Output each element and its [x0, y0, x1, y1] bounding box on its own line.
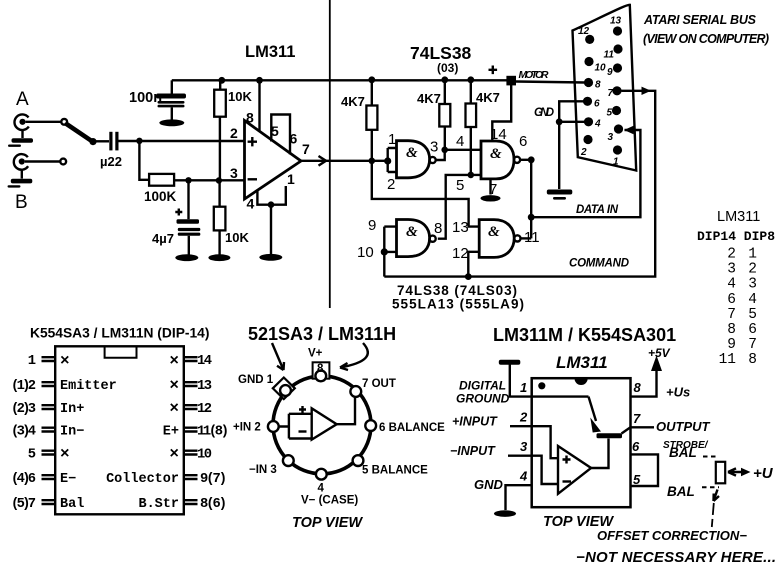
switch open contact B: [60, 159, 66, 165]
svg-text:TOP VIEW: TOP VIEW: [292, 515, 363, 531]
svg-text:A: A: [16, 89, 29, 110]
svg-text:×: ×: [169, 445, 179, 463]
svg-text:11: 11: [604, 50, 615, 61]
svg-text:4: 4: [594, 119, 601, 130]
svg-text:LM311: LM311: [556, 353, 608, 372]
svg-text:3: 3: [748, 277, 757, 293]
TO99 pin1 circle: [280, 385, 291, 396]
ground under 10K bottom: [208, 254, 230, 261]
capacitor 100n plates: [156, 94, 186, 108]
svg-text:9: 9: [607, 67, 613, 78]
svg-text:OFFSET CORRECTION−: OFFSET CORRECTION−: [597, 528, 747, 543]
svg-text:+Us: +Us: [666, 385, 690, 400]
TO99 pin6 circle: [365, 420, 376, 431]
gate G1 body: [397, 141, 430, 178]
resistor 10K top: [214, 90, 226, 117]
DIP14 pin stub R1: [184, 357, 198, 361]
svg-text:+U: +U: [753, 465, 774, 482]
svg-text:B: B: [15, 192, 28, 213]
rail node 4K7a: [368, 76, 375, 83]
svg-text:10: 10: [197, 448, 212, 463]
svg-text:COMMAND: COMMAND: [569, 258, 629, 270]
svg-text:521SA3 / LM311H: 521SA3 / LM311H: [248, 324, 396, 344]
svg-text:4: 4: [748, 292, 757, 308]
svg-text:8: 8: [748, 352, 757, 368]
transistor emitter arrowhead: [590, 418, 601, 433]
svg-text:10: 10: [357, 244, 374, 261]
resistor R 4K7b: [439, 104, 450, 127]
svg-text:2: 2: [519, 410, 528, 425]
DIP8 pin3 inner wire: [532, 456, 558, 484]
svg-text:1: 1: [287, 171, 295, 187]
TO99 pin2 circle: [268, 421, 279, 432]
TO99 arrow left: [272, 343, 284, 370]
wire pin3 node to 10K bottom: [218, 181, 220, 207]
svg-text:1: 1: [388, 131, 396, 148]
node divider branch: [216, 177, 222, 183]
DIP8 pin4 wire: [506, 485, 532, 510]
ground symbol connector: [547, 190, 573, 200]
resistor R 4K7a lead: [371, 80, 373, 106]
wire 10K top to pin3 node: [219, 117, 221, 181]
svg-text:(4)6: (4)6: [11, 471, 36, 487]
svg-text:1: 1: [28, 354, 36, 369]
svg-text:8: 8: [727, 322, 736, 338]
wire jack B to open contact: [25, 160, 60, 162]
svg-text:(5)7: (5)7: [11, 496, 36, 512]
svg-text:2: 2: [230, 125, 238, 141]
wire MOTOR to pin8: [516, 82, 585, 83]
svg-text:1: 1: [613, 157, 619, 168]
svg-text:V+: V+: [308, 348, 323, 360]
transistor base bar: [597, 433, 623, 438]
TO99 arrow right curved: [340, 343, 368, 370]
MOTOR node square: [506, 76, 516, 86]
svg-text:(VIEW ON COMPUTER): (VIEW ON COMPUTER): [643, 32, 769, 46]
svg-text:DIGITAL: DIGITAL: [459, 379, 506, 393]
DIP14 pin stub L2: [42, 382, 56, 386]
capacitor u22 plates: [109, 132, 118, 151]
svg-text:4: 4: [456, 133, 464, 150]
node 4K7a output: [369, 158, 376, 165]
resistor R 4K7a: [366, 106, 377, 130]
svg-text:5: 5: [607, 108, 613, 119]
resistor 4K7c lead: [470, 80, 472, 104]
svg-text:11: 11: [719, 352, 736, 368]
svg-text:DATA IN: DATA IN: [576, 204, 619, 216]
svg-text:ATARI SERIAL BUS: ATARI SERIAL BUS: [643, 13, 757, 27]
svg-text:5 BALANCE: 5 BALANCE: [362, 465, 428, 477]
ground under op-amp: [259, 254, 282, 261]
gate G3 bubble: [430, 236, 436, 242]
TO99 output wire: [337, 397, 355, 424]
gate G1 bubble: [430, 157, 436, 163]
rail node 10K: [218, 77, 225, 84]
svg-text:1: 1: [520, 380, 527, 395]
DIP8 pin1 inner wire: [532, 395, 589, 397]
node G1 out pullup: [441, 147, 448, 154]
arrow data in left: [624, 126, 634, 134]
svg-text:4K7: 4K7: [476, 90, 500, 105]
svg-text:7 OUT: 7 OUT: [362, 378, 396, 390]
svg-text:2: 2: [580, 147, 587, 158]
DIP14 pin stub R4: [184, 428, 198, 432]
resistor R 4K7c: [466, 104, 477, 128]
svg-text:6: 6: [748, 322, 757, 338]
connector pin 5: [612, 106, 621, 115]
switch lever: [67, 124, 93, 141]
DIP8 pin1 wire to rail: [510, 364, 532, 397]
DIP8 body: [532, 378, 631, 507]
svg-text:×: ×: [169, 377, 179, 395]
svg-text:4: 4: [318, 483, 325, 495]
svg-text:BAL: BAL: [669, 445, 697, 460]
gate G3 input tie: [384, 227, 396, 252]
svg-text:4: 4: [247, 196, 255, 212]
svg-text:2: 2: [748, 262, 757, 278]
switch pivot node: [89, 138, 96, 145]
gate G4 pin12 wire: [468, 252, 479, 277]
DIP8 ground blob: [494, 510, 516, 517]
svg-text:8: 8: [595, 80, 601, 91]
DIP8 notch: [575, 378, 588, 385]
TO99 pin5 circle: [353, 455, 364, 466]
transistor emitter wire: [589, 397, 597, 421]
wire G2 out to node: [520, 159, 531, 161]
svg-text:7: 7: [748, 337, 757, 353]
jack A: [14, 114, 28, 138]
TO99 pin8 circle: [315, 371, 326, 382]
gate G2 body: [481, 141, 514, 179]
svg-text:5: 5: [271, 123, 279, 139]
DIP8 dashes upper: [703, 456, 719, 458]
svg-text:12: 12: [452, 245, 469, 262]
svg-text:&: &: [406, 145, 418, 161]
DIP8 pin7 wire: [631, 426, 655, 428]
connector pin 12: [585, 35, 594, 44]
wire u22 to opamp pin2: [119, 140, 245, 142]
DIP8 dashes lower: [702, 486, 719, 488]
wire G3 out to G2 pin5: [438, 175, 481, 239]
wire gnd down: [558, 122, 560, 189]
svg-text:7: 7: [727, 307, 736, 323]
DIP14 pin stub R3: [184, 405, 198, 409]
svg-text:7: 7: [608, 88, 614, 99]
DIP8 pin2 wire: [510, 425, 532, 427]
svg-text:LM311: LM311: [717, 209, 760, 225]
svg-text:Emitter: Emitter: [60, 379, 117, 394]
svg-text:In+: In+: [60, 402, 84, 417]
TO99 pin8 square tab: [313, 362, 330, 378]
wire G4 out: [520, 237, 531, 239]
svg-text:555LA13 (555LA9): 555LA13 (555LA9): [392, 297, 524, 312]
node 4K7c pin5: [468, 172, 475, 179]
node pin 1-4 loop: [268, 201, 275, 208]
svg-text:9: 9: [727, 337, 736, 353]
svg-text:6: 6: [290, 131, 298, 147]
ground under 100n: [159, 119, 184, 126]
offset arrow up: [714, 490, 720, 502]
svg-text:11(8): 11(8): [197, 424, 229, 440]
DIP14 pin stub R7: [184, 500, 198, 504]
connector pin 4: [584, 117, 593, 126]
op-amp output wire: [301, 160, 388, 162]
svg-text:12: 12: [197, 402, 212, 417]
svg-text:74LS38: 74LS38: [410, 43, 472, 63]
svg-text:4K7: 4K7: [417, 91, 441, 106]
node gnd: [556, 118, 563, 125]
capacitor 4u7 plates: [177, 219, 201, 236]
DIP14 pin stub L1: [42, 357, 56, 361]
svg-text:7: 7: [302, 141, 310, 157]
gate G3 input node: [381, 248, 388, 255]
wire COMMAND from pin7: [384, 91, 655, 277]
connector pin 9: [613, 63, 622, 72]
resistor 4K7b bottom lead: [444, 127, 446, 150]
svg-text:×: ×: [169, 352, 179, 370]
svg-text:8: 8: [317, 363, 324, 375]
offset arrow dashed line: [712, 503, 714, 527]
DIP8 pin1 mark dot: [538, 382, 545, 389]
svg-text:7: 7: [633, 411, 641, 426]
svg-text:5: 5: [456, 177, 464, 194]
svg-text:TOP VIEW: TOP VIEW: [543, 514, 614, 530]
jack B: [14, 154, 28, 178]
svg-text:OUTPUT: OUTPUT: [656, 419, 711, 434]
DIP14 pin stub R5: [184, 451, 198, 455]
svg-text:(03): (03): [437, 61, 458, 75]
gate G1 input tie: [388, 148, 397, 172]
gate G4 body: [479, 220, 514, 258]
svg-text:MOTOR: MOTOR: [519, 69, 549, 81]
connector pin 8: [584, 78, 593, 87]
wire pivot to capacitor u22: [96, 140, 109, 142]
connector pin 7: [612, 86, 621, 95]
ground gate G2 pin7: [481, 195, 501, 201]
DIP8 opamp plus: [563, 456, 571, 464]
wire node down to data line: [530, 160, 532, 239]
gate G2 pin7 ground wire: [489, 179, 491, 195]
svg-text:4: 4: [519, 469, 528, 484]
svg-text:14: 14: [197, 354, 212, 369]
svg-text:LM311: LM311: [245, 43, 295, 61]
svg-text:3: 3: [430, 139, 438, 156]
svg-text:3: 3: [230, 165, 238, 181]
svg-text:LM311M / K554SA301: LM311M / K554SA301: [493, 325, 676, 345]
wire node to G4 pin13: [372, 161, 479, 227]
op-amp pin8 wire: [258, 80, 260, 131]
DIP14 pin stub L6: [42, 475, 56, 479]
potentiometer box: [716, 462, 725, 484]
pot wiper arrow left: [728, 468, 741, 475]
DIP8 +5V arrowhead: [651, 356, 662, 372]
gate G2 bubble: [514, 157, 520, 163]
svg-text:5: 5: [28, 448, 36, 463]
svg-text:13: 13: [197, 379, 212, 394]
rail node 4K7b: [441, 76, 448, 83]
node data in junction: [528, 214, 535, 221]
svg-text:2: 2: [727, 247, 736, 263]
resistor 4K7c bottom lead: [470, 127, 472, 175]
svg-text:3: 3: [608, 132, 614, 143]
svg-text:100K: 100K: [144, 189, 177, 204]
TO99 can circle: [273, 376, 371, 474]
plus5 rail: [172, 79, 507, 81]
TO99 pin7 circle: [350, 386, 361, 397]
resistor 4K7a bottom lead: [371, 130, 373, 161]
wire rail to 100n: [171, 80, 173, 93]
connector pin 3: [614, 124, 623, 133]
DIP8 pin8 wire: [631, 369, 657, 397]
svg-text:BAL: BAL: [667, 484, 695, 499]
svg-text:12: 12: [578, 26, 590, 37]
svg-text:(3)4: (3)4: [11, 424, 36, 440]
svg-text:3: 3: [520, 439, 528, 454]
capacitor 4u7 plus sign: [175, 209, 182, 216]
svg-text:6 BALANCE: 6 BALANCE: [379, 422, 445, 434]
wire 10K bottom to ground: [218, 230, 220, 254]
svg-text:&: &: [488, 224, 500, 240]
svg-text:4µ7: 4µ7: [152, 231, 174, 246]
DIP14 pin stub R2: [184, 382, 198, 386]
DIP14 pin stub L5: [42, 451, 56, 455]
svg-text:6: 6: [519, 133, 527, 150]
svg-text:K554SA3 / LM311N (DIP-14): K554SA3 / LM311N (DIP-14): [30, 326, 209, 341]
DIP8 opamp minus: [563, 480, 572, 482]
svg-text:9: 9: [368, 217, 376, 234]
pot arrow right filled: [741, 468, 751, 476]
connector pin 11: [613, 44, 622, 53]
svg-text:8: 8: [246, 110, 254, 126]
svg-text:10K: 10K: [225, 230, 249, 245]
DIP8 pin3 wire: [508, 455, 532, 457]
svg-text:&: &: [490, 146, 502, 162]
svg-text:10K: 10K: [228, 89, 252, 104]
svg-text:6: 6: [632, 439, 640, 454]
gate G1 input node: [384, 157, 391, 164]
resistor 10K bottom: [214, 207, 226, 231]
svg-text:×: ×: [60, 445, 70, 463]
svg-text:GND: GND: [534, 107, 554, 119]
DIP14 notch: [105, 346, 137, 358]
svg-text:4K7: 4K7: [341, 94, 365, 109]
DIP14 body: [55, 346, 184, 514]
op-amp U1 triangle: [245, 121, 302, 200]
DIP14 pin stub R6: [184, 475, 198, 479]
plus sign on rail: [489, 66, 498, 75]
svg-text:8: 8: [634, 380, 642, 395]
svg-text:3: 3: [727, 262, 736, 278]
connector pin 2: [583, 135, 592, 144]
node pin12 command: [465, 273, 472, 280]
wire gnd pin6: [559, 101, 586, 122]
svg-text:Collector: Collector: [106, 472, 179, 487]
svg-text:6: 6: [727, 292, 736, 308]
svg-text:−NOT NECESSARY HERE...: −NOT NECESSARY HERE...: [576, 549, 776, 566]
svg-text:8(6): 8(6): [200, 496, 227, 512]
wire G1 out to G2 pin4: [436, 150, 481, 160]
svg-text:2: 2: [387, 176, 395, 193]
TO99 opamp minus: [299, 430, 307, 432]
connector pin 10: [584, 57, 593, 66]
output arrow chevron: [319, 156, 327, 166]
resistor 4K7b lead: [444, 80, 446, 104]
svg-text:13: 13: [452, 219, 469, 236]
svg-text:E−: E−: [60, 472, 76, 487]
switch open contact A: [61, 119, 67, 125]
ground under 4u7: [175, 254, 198, 261]
node after u22: [136, 138, 142, 144]
resistor 10K top lead: [219, 80, 221, 89]
DIP8 opamp out to base: [591, 439, 608, 469]
gate G4 bubble: [514, 235, 520, 241]
gate G2 pin14 wire: [492, 80, 511, 141]
svg-text:8: 8: [434, 220, 442, 237]
transistor collector wire: [622, 427, 631, 433]
rail node pin8: [256, 77, 263, 84]
svg-text:9(7): 9(7): [200, 471, 227, 487]
svg-text:+IN 2: +IN 2: [233, 422, 261, 434]
DIP8 pin6 pin5 bracket: [631, 454, 659, 486]
svg-text:×: ×: [169, 400, 179, 418]
wire 100n to ground: [171, 107, 173, 119]
svg-text:13: 13: [610, 16, 622, 27]
svg-text:µ22: µ22: [100, 154, 122, 169]
svg-text:(1)2: (1)2: [11, 378, 36, 394]
op-amp minus sign: [248, 178, 257, 180]
svg-text:V− (CASE): V− (CASE): [301, 495, 358, 507]
svg-text:×: ×: [60, 352, 70, 370]
ground under jack A: [8, 138, 33, 147]
wire node down to 100K: [139, 141, 149, 180]
gate G3 body: [397, 220, 430, 257]
svg-text:5: 5: [748, 307, 757, 323]
connector DB13 outline: [573, 5, 637, 171]
op-amp plus sign: [248, 137, 257, 146]
ground under jack B: [8, 179, 33, 188]
svg-text:B.Str: B.Str: [138, 497, 179, 512]
TO99 opamp triangle: [312, 408, 337, 439]
resistor 100K: [149, 174, 174, 186]
svg-text:1: 1: [748, 247, 757, 263]
svg-text:−IN 3: −IN 3: [249, 464, 277, 476]
svg-text:5: 5: [633, 472, 641, 487]
wire down to capacitor 4u7: [187, 180, 189, 219]
wire loop to ground: [270, 205, 272, 254]
svg-text:Bal: Bal: [60, 497, 84, 512]
node 4u7 branch: [185, 177, 191, 183]
svg-text:DIP14 DIP8: DIP14 DIP8: [697, 229, 775, 244]
wire DATA IN to pin3: [531, 130, 640, 217]
svg-text:(2)3: (2)3: [11, 401, 36, 417]
svg-text:4: 4: [727, 277, 736, 293]
DIP14 pin stub L7: [42, 500, 56, 504]
arrow command right: [642, 87, 652, 95]
node G2 out: [528, 156, 535, 163]
DIP14 pin stub L3: [42, 405, 56, 409]
svg-text:&: &: [406, 224, 418, 240]
TO99 opamp plus: [299, 406, 306, 413]
wire jack A to switch: [26, 121, 61, 123]
svg-text:10: 10: [595, 63, 607, 74]
svg-text:GND 1: GND 1: [238, 374, 274, 386]
wire 100K to opamp pin3: [174, 179, 244, 181]
TO99 pin3 circle: [283, 455, 294, 466]
wire G3 input to command: [383, 252, 385, 277]
TO99 pin1 diamond: [273, 378, 295, 400]
TO99 pin4 circle: [316, 469, 327, 480]
connector pin 1: [613, 145, 622, 154]
